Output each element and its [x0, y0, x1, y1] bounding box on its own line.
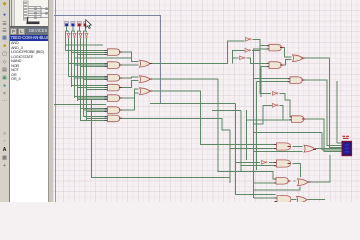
- and gate A7: [108, 115, 120, 122]
- inv103 out: [280, 106, 292, 120]
- wire top horizontal: [54, 16, 170, 104]
- red output pin marks: [119, 48, 316, 183]
- inverter ID: [273, 91, 279, 95]
- inverter N2: [73, 34, 76, 39]
- inverter IB: [245, 48, 251, 52]
- grey divider strip: [48, 0, 53, 202]
- bus vertical 2: [68, 40, 70, 77]
- and gate A6: [108, 107, 120, 114]
- invC output to and2: [247, 58, 269, 63]
- taps gate4: [72, 86, 105, 90]
- bus vertical 7: [83, 41, 85, 117]
- gate input pin stubs right side: [267, 46, 292, 202]
- invC input: [233, 57, 239, 59]
- inverter IC: [240, 56, 246, 60]
- or gate R3: [293, 55, 304, 62]
- col2g3 out right: [152, 91, 276, 145]
- and2 input2: [261, 66, 269, 68]
- input stubs col1 (dark): [105, 51, 108, 121]
- bus vertical 4: [74, 40, 76, 98]
- and gate R2: [269, 62, 281, 69]
- wire long down-left: [92, 100, 231, 178]
- or2 in2: [254, 151, 303, 153]
- col2 g2 out: [152, 78, 219, 80]
- and gate A1: [108, 49, 120, 56]
- bus vertical 6: [80, 40, 82, 110]
- and1 input2: [254, 49, 269, 64]
- b2 out down to or3: [293, 164, 301, 178]
- 7-seg display DS1: [342, 136, 352, 155]
- P / L buttons and DEVICES header: [10, 27, 48, 35]
- selected device row: [10, 35, 48, 41]
- or3 out up to display: [311, 155, 331, 182]
- b3 long input: [218, 145, 275, 180]
- or gate OB2: [298, 179, 309, 186]
- logic state input 2 (blue): [71, 22, 75, 27]
- bottom edge gate feed wires: [236, 180, 326, 200]
- bus vertical 1: [65, 41, 67, 51]
- gate5 output to col2: [122, 89, 139, 98]
- gx out: [303, 119, 342, 152]
- bus vertical 8: [86, 40, 88, 121]
- inv103 input: [254, 106, 273, 125]
- b3 input2: [254, 182, 276, 184]
- taps gate6: [81, 109, 105, 112]
- or gate O1: [140, 60, 151, 67]
- or gate OB1: [304, 145, 315, 152]
- and gate B3: [276, 178, 288, 185]
- and gate B2: [277, 160, 291, 167]
- invB output to and1: [252, 46, 269, 51]
- taps gate1: [66, 45, 132, 58]
- taps gate2: [69, 64, 105, 67]
- col2 g1 output up to inverters: [152, 41, 245, 64]
- display feed jogs: [337, 81, 342, 143]
- inverter N3: [79, 34, 82, 39]
- gx input long: [247, 119, 291, 121]
- b3 out: [294, 180, 296, 182]
- and gate A5: [108, 95, 120, 102]
- left icon toolbar: [0, 0, 10, 202]
- and1 out to or1: [282, 48, 292, 57]
- gate4 output to col2: [122, 81, 139, 88]
- sheet border: [55, 0, 57, 202]
- or2 out to display: [315, 148, 342, 150]
- and gate R5 (g_x): [292, 116, 304, 123]
- stems from logic states: [66, 26, 87, 41]
- device list: [11, 41, 48, 82]
- taps gate3: [69, 77, 105, 80]
- inverter IF: [262, 160, 268, 164]
- and gate A3: [108, 75, 120, 82]
- or gate OB3 (bottom edge, partial): [297, 196, 308, 203]
- and gate B1: [277, 143, 291, 150]
- b1 out to or2: [293, 146, 303, 148]
- gate3 output to col2: [122, 76, 139, 79]
- or3 extra input: [254, 187, 301, 191]
- mouse cursor: [86, 20, 92, 29]
- logic state input 3 (red): [77, 22, 81, 27]
- overview window with mini schematic: [10, 0, 54, 27]
- and gate R1: [269, 44, 281, 51]
- and gate A4: [108, 84, 120, 91]
- or1 out to right vertical: [305, 58, 343, 148]
- b2 input2: [241, 165, 275, 167]
- inverter IE: [273, 103, 279, 107]
- inv160 input: [236, 162, 261, 164]
- gate7 output long right: [122, 118, 231, 183]
- bottom verticals: [150, 104, 241, 181]
- inverter N1: [67, 34, 70, 39]
- or gate O3: [140, 88, 151, 95]
- inv160 out: [269, 162, 275, 164]
- schematic canvas: [53, 0, 360, 202]
- logic state input 1 (blue): [65, 22, 69, 27]
- g_bc out: [304, 80, 342, 146]
- g_bc inputs: [254, 79, 290, 82]
- gate1 output to col2: [122, 52, 139, 62]
- white object selector panel: [10, 0, 48, 202]
- and gate R4 (g_bc): [290, 77, 302, 84]
- or gate O2: [140, 76, 151, 83]
- and gate A2: [108, 62, 120, 69]
- logic state input 4 (red): [83, 22, 87, 27]
- and gate B4 (bottom edge, partial): [277, 196, 291, 203]
- taps gate7: [81, 110, 105, 121]
- wire left long input: [54, 103, 106, 105]
- and2 out to or1: [282, 59, 292, 65]
- b1 inputs: [218, 79, 275, 149]
- bus vertical 5: [77, 41, 79, 101]
- gate2 output to col2: [122, 64, 139, 66]
- inverter IA: [246, 37, 252, 41]
- gate6 output to col2: [122, 93, 139, 110]
- inv91 out: [280, 94, 292, 117]
- taps gate5: [75, 97, 105, 100]
- inverter N4: [85, 34, 88, 39]
- invA output right and down: [253, 40, 272, 94]
- bus vertical 3: [71, 41, 73, 87]
- long mid horizontal: [254, 133, 343, 151]
